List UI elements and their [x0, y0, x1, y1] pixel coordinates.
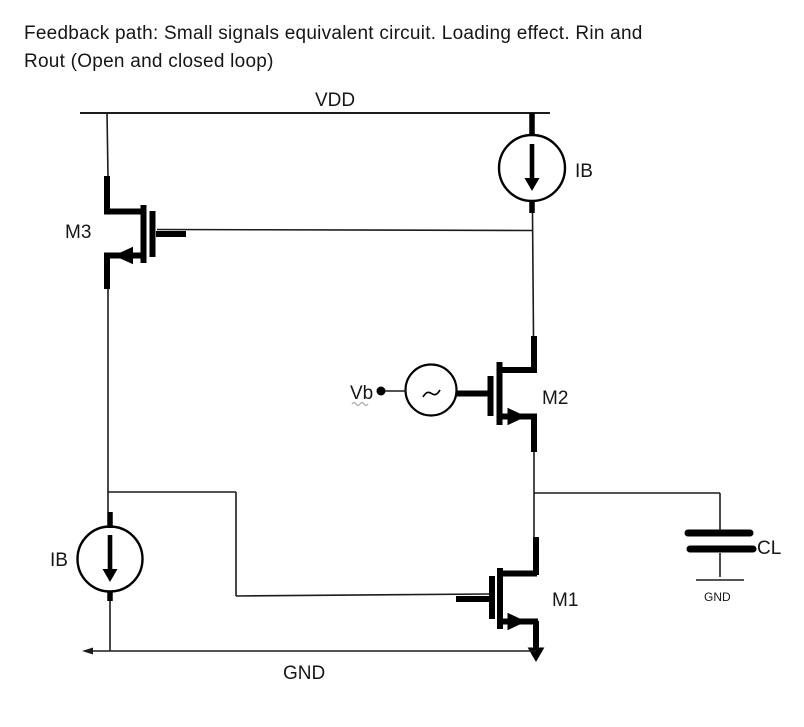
svg-text:IB: IB	[50, 550, 68, 571]
svg-text:GND: GND	[283, 663, 325, 684]
wire to M1 gate	[236, 594, 489, 596]
svg-text:VDD: VDD	[315, 90, 355, 111]
wire IB to M2 drain	[533, 213, 534, 336]
svg-text:Feedback path: Small signals e: Feedback path: Small signals equivalent …	[24, 23, 643, 44]
transistor M3	[104, 176, 186, 289]
svg-text:M2: M2	[542, 388, 568, 409]
wire IB to GND rail	[109, 601, 111, 651]
svg-text:GND: GND	[704, 590, 731, 604]
svg-text:M3: M3	[65, 222, 91, 243]
svg-text:Rout (Open and closed loop): Rout (Open and closed loop)	[24, 51, 274, 72]
voltage source Vb (sine source)	[377, 365, 457, 416]
svg-text:M1: M1	[552, 590, 578, 611]
ground under CL	[696, 579, 744, 581]
wire M3 source down to left IB	[107, 289, 109, 512]
capacitor CL	[688, 493, 753, 577]
wire output node to CL	[534, 492, 720, 494]
spellcheck squiggle under Vb	[352, 403, 368, 406]
svg-text:CL: CL	[757, 538, 781, 559]
svg-text:IB: IB	[575, 161, 593, 182]
current source IB (top right)	[499, 113, 565, 213]
wire M2 source to M1 drain (output node vertical)	[533, 452, 535, 537]
current source IB (bottom left)	[78, 512, 143, 601]
wire GND rail	[82, 648, 536, 655]
wire VDD to M3 drain	[107, 113, 108, 176]
svg-text:Vb: Vb	[350, 383, 373, 404]
transistor M1	[456, 537, 544, 661]
wire M3 gate to IB node	[157, 230, 532, 231]
wire VDD rail	[80, 112, 550, 114]
title text	[24, 23, 643, 72]
wire left node down	[235, 492, 237, 596]
transistor M2	[456, 336, 537, 452]
wire left node horizontal	[108, 491, 236, 493]
